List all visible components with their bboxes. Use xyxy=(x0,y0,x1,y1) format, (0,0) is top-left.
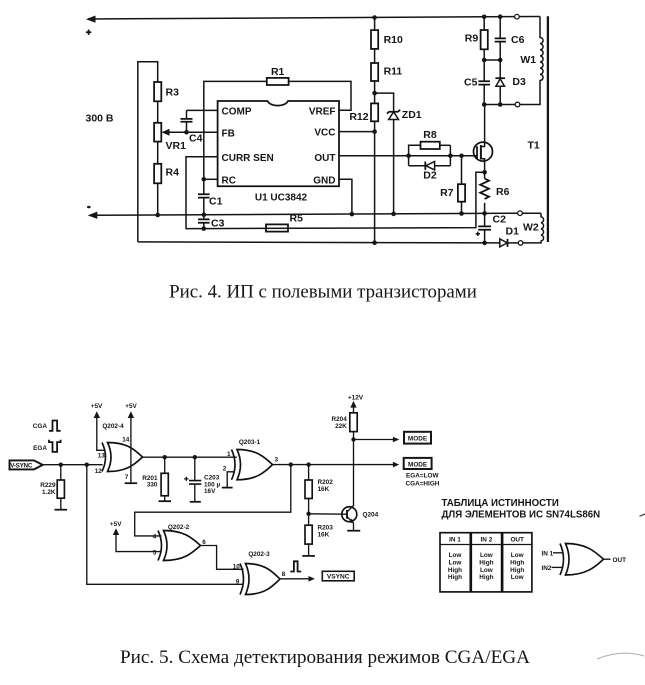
svg-text:W2: W2 xyxy=(523,222,539,234)
zener diode ZD1 xyxy=(387,109,422,214)
wire R12 down to line C xyxy=(374,121,376,242)
svg-text:Low: Low xyxy=(449,552,462,559)
resistor R201 xyxy=(142,457,171,501)
node junction collector xyxy=(351,437,355,441)
svg-text:14: 14 xyxy=(122,437,130,444)
wire pin2 ground stub xyxy=(222,472,234,488)
node open circle W2 top xyxy=(518,211,523,216)
node truth table column IN2 xyxy=(471,533,501,592)
svg-text:7: 7 xyxy=(125,474,129,481)
wire current sense line B xyxy=(204,172,485,228)
node minus mark xyxy=(87,206,91,208)
wire FB to VR1 wiper xyxy=(162,129,218,136)
svg-text:Low: Low xyxy=(449,559,462,566)
svg-text:High: High xyxy=(510,567,524,574)
svg-text:8: 8 xyxy=(282,571,286,578)
resistor R8 xyxy=(409,129,451,166)
svg-text:IN 2: IN 2 xyxy=(481,536,493,543)
svg-text:OUT: OUT xyxy=(613,557,627,564)
power +5V arrow pin14 xyxy=(122,403,137,483)
node junction GND rail xyxy=(350,212,355,217)
wire output8 VSYNC arrow xyxy=(280,561,315,581)
wire gate output xyxy=(143,456,237,458)
node junction C6 top rail xyxy=(498,14,503,19)
capacitor C2 xyxy=(476,214,506,243)
op-amp Q202-3 XOR gate xyxy=(233,551,280,595)
node junction RC xyxy=(202,177,207,182)
node junction R7 top xyxy=(459,154,464,159)
transformer core T1 xyxy=(528,16,548,242)
wire R4 to rail xyxy=(157,183,159,215)
wire COMP line xyxy=(187,109,218,111)
wire R1 to RC column xyxy=(204,81,267,194)
svg-text:9: 9 xyxy=(236,578,240,585)
svg-text:13: 13 xyxy=(98,452,106,459)
svg-text:R202: R202 xyxy=(318,479,334,486)
node junction link right xyxy=(498,58,503,63)
node stray mark bottom right xyxy=(597,653,644,659)
svg-text:High: High xyxy=(510,559,524,566)
svg-text:EGA=LOW: EGA=LOW xyxy=(406,473,439,480)
wire link row xyxy=(484,59,500,61)
wire W1 bottom rail xyxy=(484,104,515,106)
svg-text:OUT: OUT xyxy=(510,536,524,543)
wire bottom line C xyxy=(138,242,500,243)
svg-text:Q202-2: Q202-2 xyxy=(168,524,190,531)
svg-text:C5: C5 xyxy=(464,77,478,89)
svg-text:16K: 16K xyxy=(318,532,330,539)
svg-text:OUT: OUT xyxy=(314,153,335,164)
node truth table column IN1 xyxy=(440,533,470,592)
svg-text:MODE: MODE xyxy=(408,436,428,443)
svg-text:R3: R3 xyxy=(166,87,180,99)
svg-text:D1: D1 xyxy=(506,226,520,238)
svg-text:R9: R9 xyxy=(465,33,479,45)
node junction fb branch xyxy=(289,462,293,466)
capacitor C4 xyxy=(181,110,203,144)
svg-text:R203: R203 xyxy=(318,525,334,532)
node open circle W1 top xyxy=(515,14,520,19)
node MODE box lower xyxy=(404,458,440,488)
svg-text:Q203-1: Q203-1 xyxy=(239,439,261,446)
svg-text:R5: R5 xyxy=(290,213,304,225)
svg-text:VSYNC: VSYNC xyxy=(327,574,350,581)
wire VREF to R1 xyxy=(289,81,351,110)
svg-text:C4: C4 xyxy=(189,133,203,145)
svg-text:ТАБЛИЦА ИСТИННОСТИ: ТАБЛИЦА ИСТИННОСТИ xyxy=(442,498,559,509)
svg-text:High: High xyxy=(479,559,493,566)
node junction R11-ZD1 xyxy=(372,81,377,103)
svg-text:High: High xyxy=(448,574,462,581)
svg-text:IN 1: IN 1 xyxy=(449,536,461,543)
node plus mark xyxy=(86,30,91,35)
svg-text:ДЛЯ ЭЛЕМЕНТОВ ИС SN74LS86N: ДЛЯ ЭЛЕМЕНТОВ ИС SN74LS86N xyxy=(442,510,601,521)
svg-text:CURR SEN: CURR SEN xyxy=(222,153,274,164)
node junction feedback xyxy=(85,463,89,467)
resistor R203 xyxy=(302,514,333,556)
svg-text:Q202-4: Q202-4 xyxy=(102,423,124,430)
wire ZD1 branch xyxy=(375,93,394,111)
svg-text:10: 10 xyxy=(233,563,241,570)
svg-text:CGA=HIGH: CGA=HIGH xyxy=(406,481,440,488)
svg-text:Low: Low xyxy=(480,552,493,559)
transistor Q204 xyxy=(309,505,379,531)
svg-text:330: 330 xyxy=(147,482,158,489)
svg-text:R12: R12 xyxy=(349,111,368,123)
svg-text:V-SYNC: V-SYNC xyxy=(10,462,33,469)
svg-text:5: 5 xyxy=(153,549,157,556)
node junction drain rail xyxy=(482,102,487,107)
svg-text:Q204: Q204 xyxy=(363,511,379,518)
svg-text:4: 4 xyxy=(153,534,157,541)
node junction R202 top xyxy=(306,462,310,466)
wire top +300V rail xyxy=(86,16,540,23)
diode D2 xyxy=(409,145,451,181)
wire output3 MODE line xyxy=(273,457,400,468)
wire upper MODE arrow xyxy=(354,437,400,443)
svg-text:Low: Low xyxy=(511,552,524,559)
wire collector vertical xyxy=(353,440,355,506)
svg-text:R8: R8 xyxy=(423,129,437,141)
resistor R10 xyxy=(371,18,403,49)
wire VR1-R4 xyxy=(157,142,159,164)
svg-text:+12V: +12V xyxy=(348,395,364,402)
svg-text:R10: R10 xyxy=(384,34,403,46)
FIG4 xyxy=(86,14,548,302)
wire RC pin xyxy=(204,178,218,180)
node MODE box upper xyxy=(404,432,431,444)
node junction VCC xyxy=(372,129,377,134)
capacitor C203 xyxy=(184,457,220,502)
wire middle -300V rail xyxy=(88,212,518,219)
capacitor C5 xyxy=(464,77,490,105)
svg-text:IN 1: IN 1 xyxy=(542,550,554,557)
svg-text:D3: D3 xyxy=(512,76,526,88)
resistor R5 xyxy=(266,213,303,232)
wire vsync line xyxy=(42,464,103,466)
svg-text:R6: R6 xyxy=(496,186,510,198)
svg-text:Q202-3: Q202-3 xyxy=(248,551,270,558)
svg-text:Low: Low xyxy=(480,567,493,574)
svg-text:2: 2 xyxy=(223,466,227,473)
winding W1 xyxy=(520,17,543,105)
node junction R229 xyxy=(59,463,63,467)
node junction C1 rail xyxy=(202,212,207,217)
diode D1 xyxy=(500,226,519,247)
node junction C2 line C xyxy=(482,241,487,246)
resistor R3 xyxy=(154,82,179,101)
svg-text:RC: RC xyxy=(222,176,236,187)
node junction OUT-R8 loop xyxy=(406,154,411,159)
resistor R7 xyxy=(440,156,465,214)
svg-text:Рис. 5. Схема детектирования р: Рис. 5. Схема детектирования режимов CGA… xyxy=(120,647,530,668)
svg-text:IN2: IN2 xyxy=(542,565,552,572)
power +5V arrow left xyxy=(91,403,104,450)
svg-text:D2: D2 xyxy=(423,170,437,182)
svg-text:R1: R1 xyxy=(271,66,285,78)
svg-text:VCC: VCC xyxy=(314,128,335,139)
node junction R10 top xyxy=(372,15,377,20)
op-amp reference XOR gate xyxy=(542,544,627,576)
wire feedback loop to Q202-2 xyxy=(135,465,291,536)
svg-text:+5V: +5V xyxy=(110,521,122,528)
FIG5 xyxy=(10,395,645,669)
svg-text:Рис. 4. ИП с полевыми транзист: Рис. 4. ИП с полевыми транзисторами xyxy=(169,282,477,303)
resistor R11 xyxy=(371,49,402,81)
transistor T1 MOSFET xyxy=(474,105,493,173)
node truth table column OUT xyxy=(503,533,532,592)
svg-text:300 B: 300 B xyxy=(86,113,114,125)
wire VCC pin xyxy=(339,131,375,133)
node junction R6 rail xyxy=(482,211,487,216)
node junction loop right xyxy=(448,154,453,159)
svg-text:C3: C3 xyxy=(211,218,225,230)
resistor R9 xyxy=(465,17,488,81)
wire CURR SEN loop xyxy=(186,157,218,229)
wire GND pin xyxy=(339,179,352,214)
svg-text:VR1: VR1 xyxy=(166,140,187,152)
winding W2 xyxy=(522,213,543,243)
node junction C6-D3 rail xyxy=(498,102,503,107)
svg-text:MODE: MODE xyxy=(408,462,428,469)
svg-text:W1: W1 xyxy=(520,54,536,66)
svg-text:6: 6 xyxy=(202,539,206,546)
op-amp Q203-1 XOR gate xyxy=(223,439,273,480)
svg-text:R7: R7 xyxy=(440,187,454,199)
node junction ZD1 rail xyxy=(391,212,396,217)
node junction source xyxy=(482,170,487,175)
node VSYNC box xyxy=(322,571,354,581)
svg-text:COMP: COMP xyxy=(222,107,252,118)
svg-text:R4: R4 xyxy=(166,167,180,179)
wire R3-VR1 xyxy=(157,101,159,123)
power +5V arrow Q202-2 xyxy=(110,521,162,551)
svg-text:ZD1: ZD1 xyxy=(402,109,422,121)
svg-text:GND: GND xyxy=(313,176,335,187)
svg-text:C1: C1 xyxy=(209,196,223,208)
node stray mark right xyxy=(640,514,645,516)
power +12V arrow xyxy=(348,395,364,413)
svg-text:EGA: EGA xyxy=(33,445,47,452)
svg-text:Low: Low xyxy=(511,574,524,581)
resistor R202 xyxy=(305,465,333,514)
svg-text:High: High xyxy=(479,574,493,581)
resistor R6 zigzag xyxy=(480,172,509,226)
node EGA label xyxy=(33,440,60,452)
node junction base xyxy=(306,512,310,516)
node open circle W2 bottom xyxy=(518,241,523,246)
svg-text:+5V: +5V xyxy=(125,403,137,410)
node junction R201 xyxy=(163,455,167,459)
svg-text:VREF: VREF xyxy=(309,107,336,118)
resistor R1 xyxy=(267,66,289,85)
wire left vertical branch xyxy=(138,62,158,242)
svg-text:16K: 16K xyxy=(318,486,330,493)
svg-text:12: 12 xyxy=(95,468,103,475)
svg-text:16V: 16V xyxy=(204,488,216,495)
svg-text:1: 1 xyxy=(227,451,231,458)
node junction link left xyxy=(482,58,487,63)
svg-text:C6: C6 xyxy=(511,34,525,46)
node junction C4-FB xyxy=(184,130,189,135)
resistor R204 xyxy=(332,413,358,440)
node CGA label xyxy=(33,421,61,431)
svg-text:C2: C2 xyxy=(493,214,507,226)
svg-text:CGA: CGA xyxy=(33,423,48,430)
resistor R12 xyxy=(349,103,378,123)
capacitor C3 xyxy=(198,218,225,230)
op-amp Q202-4 XOR gate xyxy=(95,423,143,475)
node junction C203 xyxy=(193,455,197,459)
capacitor C6 xyxy=(495,17,525,78)
op-amp Q202-2 XOR gate xyxy=(153,524,201,560)
op-amp U1 UC3842 IC box xyxy=(218,101,339,204)
svg-text:+5V: +5V xyxy=(91,403,103,410)
svg-text:T1: T1 xyxy=(528,140,540,152)
node junction C3 bottom xyxy=(202,226,207,231)
svg-text:R204: R204 xyxy=(332,416,348,423)
svg-text:High: High xyxy=(448,567,462,574)
svg-text:3: 3 xyxy=(275,457,279,464)
diode D3 xyxy=(495,76,526,105)
resistor R4 xyxy=(154,164,179,184)
node V-SYNC input tag xyxy=(10,460,43,469)
resistor R229 xyxy=(40,465,67,510)
svg-text:FB: FB xyxy=(222,128,235,139)
wire output6 to Q202-3 xyxy=(201,539,244,570)
node junction R4 rail xyxy=(155,213,160,218)
node junction R12 line C xyxy=(372,240,377,245)
capacitor C1 xyxy=(198,194,223,219)
svg-text:1.2K: 1.2K xyxy=(42,489,56,496)
node junction R7 rail xyxy=(459,211,464,216)
wire feedback to pin9 xyxy=(87,465,244,585)
potentiometer VR1 xyxy=(154,123,186,152)
svg-text:22K: 22K xyxy=(335,423,347,430)
svg-text:U1 UC3842: U1 UC3842 xyxy=(255,193,308,204)
svg-text:R11: R11 xyxy=(384,66,403,78)
wire OUT pin xyxy=(339,155,477,157)
node junction R9 top rail xyxy=(482,14,487,19)
